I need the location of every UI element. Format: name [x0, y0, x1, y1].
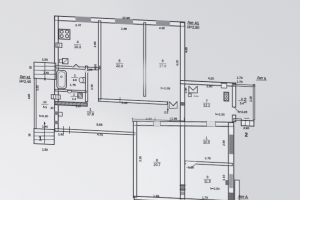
wall bath top: [55, 66, 98, 70]
porch wall right low: [235, 180, 240, 201]
interior lower-right section: [134, 123, 233, 202]
wall bath right: [86, 66, 88, 102]
witness tick 170.3: [169, 118, 171, 122]
upper stairs: [34, 62, 56, 79]
door gap bath right wall: [85, 69, 88, 73]
toilet: [83, 77, 85, 83]
kitchen stove: [59, 29, 70, 39]
top outer wall: [55, 16, 185, 26]
dark right wall bottom: [229, 192, 234, 200]
hatch central wall seg2: [181, 184, 185, 191]
bottom-left bright corner: [0, 100, 200, 240]
M door symbol room7: [189, 86, 198, 94]
right wall rooms 1-9: [228, 122, 233, 200]
wall room7 right: [232, 83, 235, 107]
faint watermark smudge: [126, 61, 178, 89]
witness line: [132, 118, 185, 121]
interior annex a1: [35, 79, 58, 130]
left wall lower section: [133, 121, 136, 197]
kitchen sink: [56, 43, 62, 48]
interior upper section: [56, 18, 184, 107]
paper background: [0, 0, 300, 200]
hatch strokes room2 bottom wall: [57, 101, 59, 104]
hatch left wall seg2: [54, 121, 58, 125]
door gap divider: [186, 161, 196, 164]
main central wall: [180, 22, 184, 200]
hatch central wall seg3: [181, 192, 185, 196]
wall room7 right lower part: [232, 115, 235, 122]
vent box right of left wall: [59, 112, 63, 116]
top wall lower section: [133, 117, 233, 130]
hatch wall kitchen-room5: [98, 66, 101, 70]
annex entrance stairs: [241, 120, 254, 126]
door peak kitchen-bath: [73, 64, 80, 67]
hatch central wall seg1: [181, 102, 185, 106]
tick2 bottom wall: [69, 126, 71, 133]
lower stairs: [34, 129, 54, 145]
annex a top wall: [234, 84, 255, 86]
window right wall upper: [229, 135, 233, 155]
door-M symbol corridor: [169, 101, 177, 108]
left outer wall: [55, 16, 59, 131]
thin bottom wall left part: [55, 129, 135, 135]
witness tick 132.6: [132, 118, 134, 122]
bottom wall lower section: [134, 196, 233, 204]
witness tick 184.2: [183, 118, 185, 122]
stove room 7: [224, 92, 229, 101]
hatch left wall seg1: [54, 111, 58, 115]
tick central wall b: [179, 188, 186, 191]
wall bath bottom: [55, 89, 87, 92]
small box under M symbol: [188, 94, 191, 97]
door gap in top wall: [154, 121, 161, 126]
wall room7 top: [180, 81, 236, 87]
top-left subtle light: [0, 0, 135, 103]
witness tick 155.0: [154, 118, 156, 122]
wall room5/room6: [144, 23, 146, 97]
window W3 top wall: [156, 20, 170, 26]
door arc room9: [186, 163, 196, 168]
annex a bottom wall: [234, 119, 242, 121]
corner pier bottom right: [225, 180, 229, 185]
annex a right wall: [253, 84, 254, 120]
wall room2 bottom (hatched): [55, 101, 87, 106]
interior room 7: [181, 83, 235, 125]
bottom-right subtle shade: [176, 108, 320, 240]
window right wall lower: [229, 174, 233, 188]
wash basin room2: [67, 90, 72, 93]
window W1 top wall: [76, 16, 92, 22]
paper grain overlay: [0, 0, 300, 200]
radiator left of wall: [51, 95, 60, 100]
wall corridor top: [98, 99, 167, 105]
washing machine kitchen: [62, 58, 68, 64]
window W2 top wall: [115, 18, 133, 24]
bathtub: [57, 70, 67, 89]
window box room7 top wall: [221, 83, 226, 88]
door gap 2 in top wall: [207, 121, 216, 126]
wall kitchen/room5: [98, 21, 101, 100]
tick1 bottom wall: [63, 126, 65, 133]
dim arrow 2.2: [167, 101, 169, 111]
wall rooms1-9 divider: [185, 161, 233, 166]
door leaf annex door: [234, 107, 240, 112]
appliance square room2: [78, 93, 83, 98]
annex a1 left wall: [34, 78, 36, 129]
tick central wall a: [179, 184, 186, 187]
door gap bath top: [72, 66, 79, 68]
tick corridor wall: [119, 97, 121, 102]
